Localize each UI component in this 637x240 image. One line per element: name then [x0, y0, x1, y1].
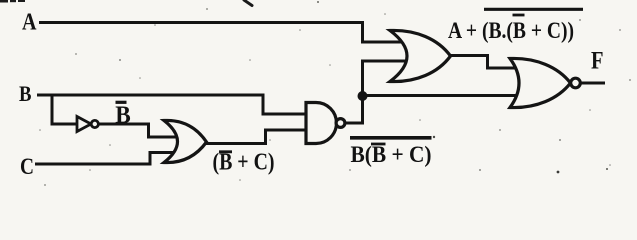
- wire B branch down to NOT input: [52, 95, 77, 124]
- inverter NOT gate (B to Bbar): [77, 117, 98, 132]
- svg-text:B: B: [19, 81, 32, 106]
- svg-text:(B + C): (B + C): [213, 150, 275, 176]
- stray tick mark top: [244, 0, 252, 6]
- wire NOT output to OR1 top input: [98, 124, 180, 137]
- svg-text:A: A: [22, 10, 37, 36]
- corner smudge artifact top-left: [0, 0, 25, 3]
- svg-text:A + (B.(B + C)): A + (B.(B + C)): [448, 18, 574, 43]
- scan noise speckles: [39, 1, 631, 186]
- label Bbar at NOT output: [115, 102, 131, 129]
- wire OR2 output step down to NOR top input: [450, 56, 520, 69]
- OR gate U3 (A + nand): [390, 30, 451, 81]
- wire NOR output to F: [580, 82, 605, 85]
- wire C step up to OR1 bottom input: [150, 153, 176, 166]
- wire OR1 output to NAND bottom input: [206, 130, 306, 144]
- wire B horizontal: [37, 94, 265, 97]
- wire A horizontal: [39, 21, 364, 24]
- wire NAND output up to junction: [345, 96, 363, 123]
- wire C horizontal: [35, 163, 152, 166]
- OR gate U1 (Bbar + C): [164, 120, 207, 162]
- svg-text:B: B: [115, 102, 131, 129]
- NAND gate U2 (B and (Bbar+C)): [306, 103, 345, 144]
- svg-text:F: F: [591, 48, 604, 75]
- label or output A + (B.(Bbar + C)) with overline: [448, 9, 583, 43]
- label (Bbar + C) at OR1 output: [213, 150, 275, 176]
- wire B step down to NAND top input: [263, 94, 306, 115]
- svg-text:C: C: [20, 154, 34, 179]
- wire junction to NOR bottom input: [363, 94, 522, 97]
- wire OR2 bottom input from junction: [363, 61, 407, 97]
- label nand output B(Bbar + C) with overline: [350, 138, 432, 167]
- wire A step down to OR2 top input: [363, 21, 407, 42]
- svg-text:B(B + C): B(B + C): [351, 142, 432, 167]
- junction dot node: [358, 91, 368, 101]
- NOR gate U4 (output F): [510, 58, 580, 107]
